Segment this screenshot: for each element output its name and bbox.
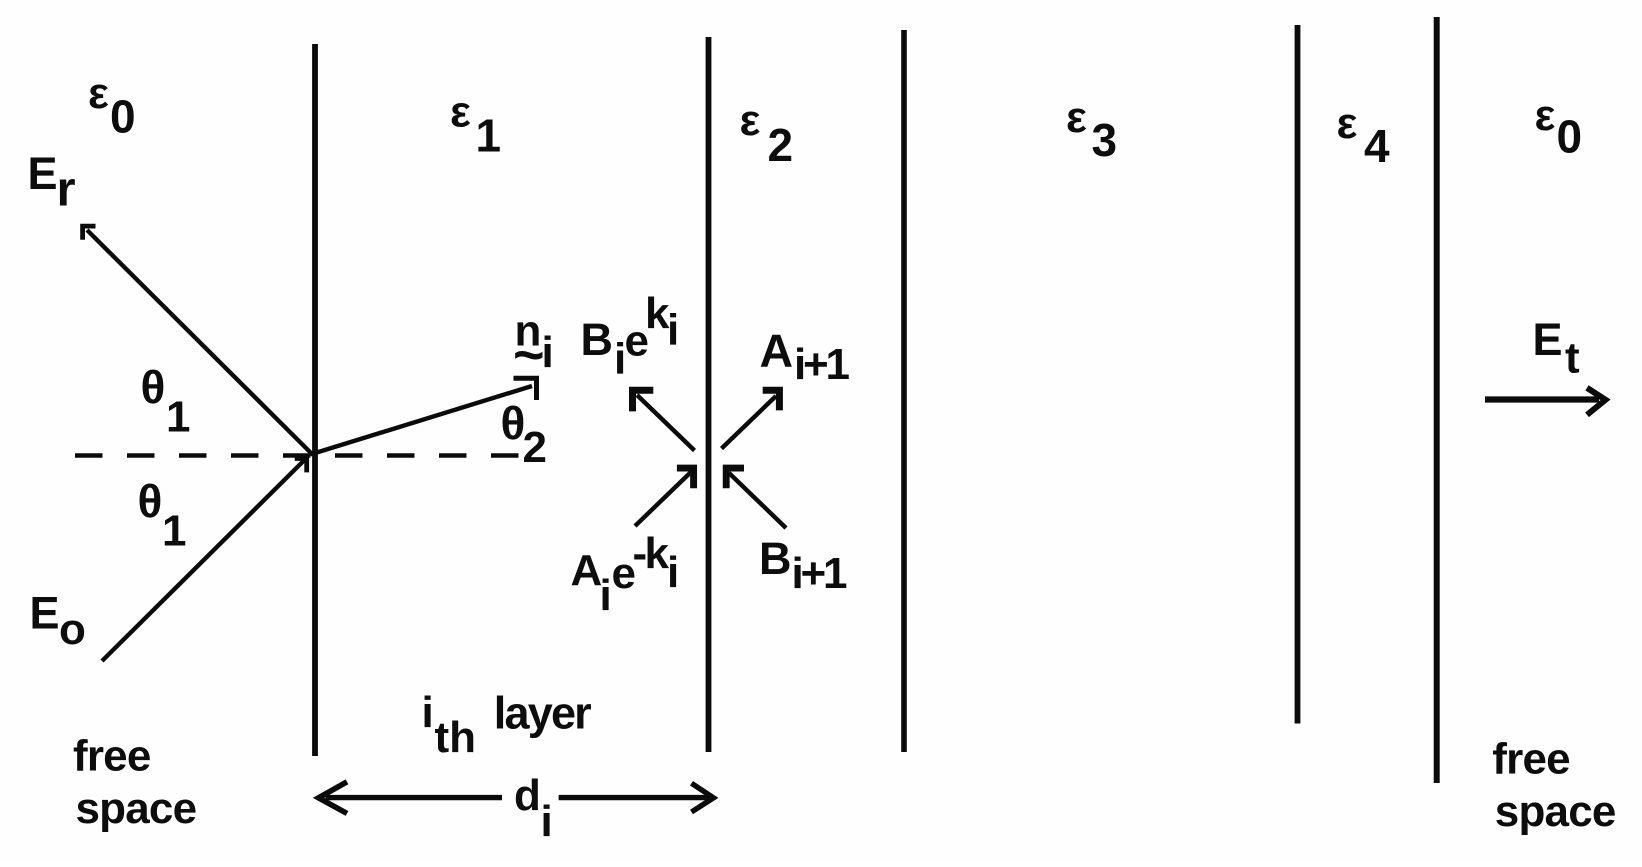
- svg-text:r: r: [57, 163, 76, 217]
- boundary line interface 4: [1295, 25, 1301, 724]
- Bi+1 wave ray shaft: [729, 473, 786, 528]
- svg-text:o: o: [59, 605, 86, 654]
- svg-text:B: B: [581, 314, 614, 365]
- boundary line interface 1: [312, 44, 318, 756]
- svg-text:ε: ε: [88, 69, 109, 118]
- svg-text:E: E: [30, 588, 60, 639]
- reflected ray arrowhead: [83, 226, 96, 240]
- Ai wave ray shaft: [635, 472, 691, 526]
- svg-text:i: i: [422, 688, 434, 737]
- svg-text:0: 0: [110, 91, 136, 143]
- svg-text:E: E: [28, 148, 58, 199]
- Ai+1 wave ray shaft: [722, 396, 777, 449]
- di dimension arrow left shaft: [326, 795, 503, 800]
- svg-text:layer: layer: [494, 688, 591, 739]
- svg-text:th: th: [435, 713, 477, 762]
- svg-text:θ: θ: [141, 361, 166, 413]
- svg-text:4: 4: [1364, 120, 1390, 172]
- svg-text:A: A: [571, 546, 603, 595]
- svg-text:0: 0: [1557, 111, 1583, 163]
- boundary line interface 5: [1434, 17, 1440, 783]
- Et arrowhead chevron: [1587, 388, 1606, 415]
- svg-text:~: ~: [513, 325, 545, 385]
- svg-text:ε: ε: [450, 88, 471, 137]
- svg-text:space: space: [1495, 787, 1616, 836]
- svg-text:i: i: [541, 797, 553, 846]
- svg-text:ε: ε: [1066, 93, 1087, 142]
- svg-text:A: A: [760, 325, 794, 377]
- svg-text:space: space: [76, 784, 197, 833]
- svg-text:3: 3: [1092, 114, 1118, 166]
- Et transmitted arrow shaft: [1485, 396, 1599, 402]
- Ai+1 wave arrowhead: [763, 390, 780, 410]
- svg-text:2: 2: [523, 423, 547, 472]
- svg-text:t: t: [1565, 334, 1580, 383]
- svg-text:E: E: [1533, 314, 1563, 365]
- Ai wave arrowhead: [677, 468, 694, 488]
- svg-text:i: i: [542, 328, 554, 377]
- svg-text:ε: ε: [740, 96, 761, 145]
- refracted ray ni shaft: [314, 386, 533, 454]
- Bi wave ray shaft: [637, 395, 695, 451]
- svg-text:i: i: [667, 548, 679, 597]
- di dimension arrow right shaft: [559, 795, 709, 800]
- Bi+1 wave arrowhead: [726, 468, 744, 488]
- boundary line interface 3: [901, 30, 907, 752]
- svg-text:1: 1: [166, 393, 190, 442]
- di left chevron: [319, 782, 348, 814]
- svg-text:ε: ε: [1535, 91, 1556, 140]
- svg-text:ε: ε: [1337, 99, 1358, 148]
- svg-text:i+1: i+1: [794, 340, 850, 389]
- svg-text:1: 1: [476, 110, 502, 162]
- refracted ray arrowhead: [514, 378, 537, 400]
- svg-text:i: i: [667, 306, 679, 355]
- incident ray Eo shaft: [102, 458, 307, 661]
- dashed normal axis: [75, 453, 522, 458]
- svg-text:1: 1: [162, 507, 186, 556]
- boundary line interface 2: [706, 37, 712, 752]
- svg-text:θ: θ: [138, 475, 163, 527]
- svg-text:B: B: [759, 533, 792, 584]
- Bi wave arrowhead: [633, 390, 654, 411]
- svg-text:free: free: [73, 732, 151, 781]
- svg-text:k: k: [645, 529, 670, 578]
- svg-text:free: free: [1492, 735, 1570, 784]
- incident ray arrowhead: [295, 459, 307, 473]
- svg-text:i+1: i+1: [792, 549, 848, 598]
- di right chevron: [692, 783, 714, 812]
- reflected ray Er shaft: [87, 230, 313, 455]
- svg-text:i: i: [600, 571, 612, 620]
- svg-text:2: 2: [768, 119, 794, 171]
- svg-text:d: d: [514, 771, 541, 820]
